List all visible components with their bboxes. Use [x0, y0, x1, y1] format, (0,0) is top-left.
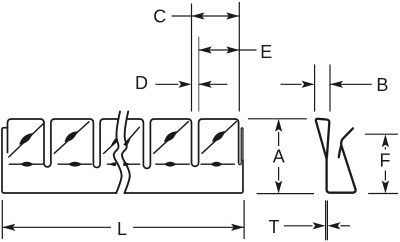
extension line F top	[365, 133, 398, 135]
dimension D	[155, 81, 227, 88]
extension line B left	[314, 65, 316, 112]
lance diagonal tooth 5	[154, 122, 189, 154]
svg-text:T: T	[269, 217, 280, 237]
svg-text:A: A	[273, 146, 285, 166]
dimension T	[284, 222, 350, 229]
extension line C/E right	[238, 2, 240, 112]
break line right	[122, 112, 130, 194]
lance diagonal tooth 4 (cut by break)	[124, 127, 139, 147]
lance diagonal tooth 1	[9, 123, 44, 157]
dimension E	[199, 46, 257, 53]
strip outline right of break	[128, 119, 239, 168]
dimension L	[2, 224, 244, 231]
extension line T right	[326, 200, 328, 240]
strip outline left of break	[2, 119, 118, 193]
svg-text:L: L	[117, 219, 127, 239]
lance horizontal cell 2	[58, 162, 91, 167]
extension line L right	[243, 200, 245, 239]
cross-section body	[327, 128, 356, 192]
svg-text:F: F	[380, 151, 391, 171]
right end slot and sliver	[239, 128, 243, 165]
extension line F bottom	[368, 193, 398, 195]
lance horizontal cell 3 (cut by break)	[107, 162, 116, 166]
extension line T left	[325, 200, 327, 240]
lance horizontal cell 4 (cut by break)	[124, 162, 140, 166]
svg-text:B: B	[376, 75, 388, 95]
dimension F	[382, 134, 389, 193]
extension line D right (gray)	[198, 37, 200, 112]
extension line L left	[1, 200, 3, 239]
extension line A bottom	[257, 193, 314, 195]
left end slit	[7, 128, 9, 153]
break line left	[114, 112, 122, 194]
lance diagonal tooth 3 (cut by break)	[104, 138, 118, 153]
lance horizontal cell 6	[201, 162, 234, 167]
lance diagonal tooth 6	[202, 122, 236, 154]
strip bottom and right edge	[125, 160, 243, 193]
lance horizontal cell 5	[156, 162, 189, 167]
extension line A top	[248, 118, 307, 120]
lance diagonal tooth 2	[54, 122, 89, 154]
svg-text:D: D	[135, 73, 148, 93]
svg-text:C: C	[153, 7, 166, 27]
dimension B	[281, 81, 372, 88]
dimension A	[275, 119, 282, 194]
svg-text:E: E	[260, 42, 272, 62]
dimension C	[172, 12, 240, 19]
lance horizontal cell 1	[9, 162, 43, 167]
cross-section barb (inner end)	[339, 146, 341, 157]
extension line B right	[329, 65, 331, 112]
extension line C/D left	[191, 4, 193, 112]
cross-section fold (top hem)	[316, 119, 329, 159]
